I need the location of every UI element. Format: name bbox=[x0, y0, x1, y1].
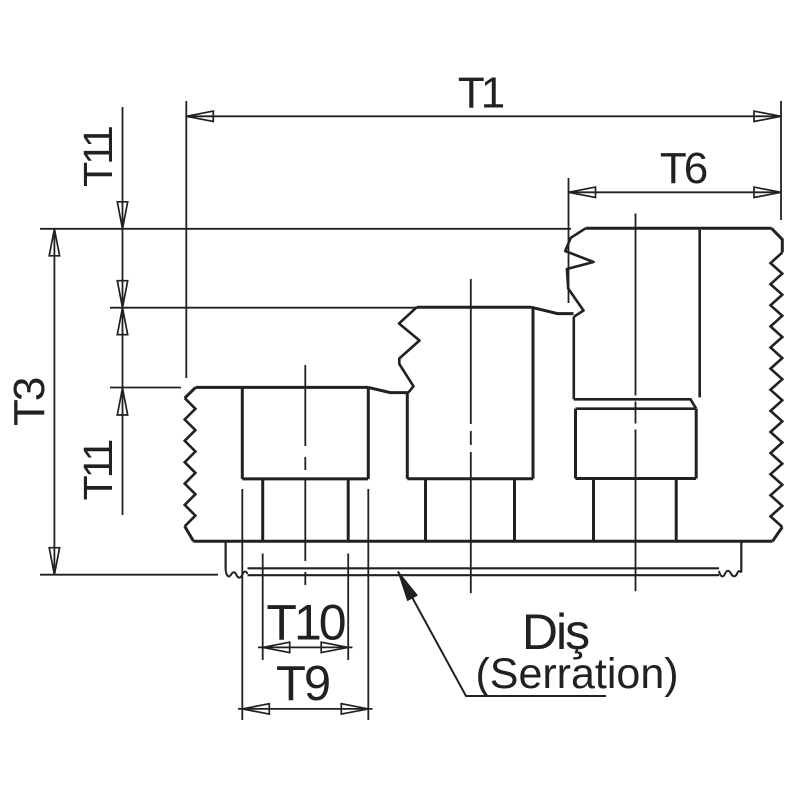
T9 left extension line bbox=[241, 489, 243, 720]
jaw body bottom-right corner chamfer bbox=[773, 527, 783, 541]
serration strip right end vertical bbox=[740, 541, 742, 572]
jaw body left edge serrated zigzag bbox=[185, 398, 196, 526]
serration strip upper line bbox=[248, 567, 720, 569]
serration strip left freehand squiggle bbox=[226, 570, 248, 578]
extension line of right section top bbox=[40, 228, 571, 230]
T1 right arrowhead bbox=[754, 111, 781, 121]
T11 middle arrowhead up bbox=[117, 308, 127, 335]
jaw body top-right corner chamfer bbox=[772, 228, 783, 252]
jaw body middle section top edge bbox=[417, 306, 532, 309]
T1 T6 shared right extension line bbox=[780, 101, 782, 220]
jaw body top-left corner chamfer bbox=[185, 387, 196, 398]
T9 dimension line bbox=[238, 708, 373, 710]
jaw body bottom edge bbox=[194, 540, 773, 543]
jaw body right edge serrated zigzag bbox=[771, 253, 783, 528]
T1 left arrowhead bbox=[186, 111, 213, 121]
T3 dimension line bbox=[53, 229, 55, 575]
right T-nut lower narrow block bbox=[594, 479, 677, 542]
jaw body left section top edge bbox=[196, 386, 369, 389]
left T-nut lower narrow block bbox=[263, 479, 349, 541]
T10 right extension line bbox=[347, 554, 349, 661]
T9 left arrowhead bbox=[242, 704, 269, 714]
svg-text:T3: T3 bbox=[5, 378, 54, 426]
centerline of middle T-nut bbox=[470, 279, 472, 593]
svg-text:T1: T1 bbox=[458, 69, 504, 118]
middle section freehand break line bbox=[399, 307, 420, 392]
T1 left extension line bbox=[185, 101, 187, 378]
right section slot right edge bbox=[698, 230, 701, 398]
T9 right extension line bbox=[367, 489, 369, 720]
jaw body bottom-left corner chamfer bbox=[185, 526, 194, 541]
T1 dimension line bbox=[186, 115, 781, 117]
T11 chain dimension vertical line bbox=[122, 107, 124, 515]
T3 top arrowhead bbox=[49, 229, 59, 256]
jaw body outline right section top edge bbox=[586, 227, 772, 230]
T11 lower arrowhead up bbox=[117, 388, 127, 415]
svg-text:T10: T10 bbox=[266, 595, 344, 651]
right section slot left edge bbox=[572, 317, 575, 400]
middle T-nut lower narrow block bbox=[426, 479, 515, 542]
T6 dimension line bbox=[569, 191, 782, 193]
serration leader line bbox=[398, 572, 606, 697]
serration strip lower line bbox=[248, 574, 720, 576]
svg-text:T11: T11 bbox=[75, 127, 121, 187]
extension line of left section top bbox=[110, 387, 181, 389]
right section freehand break line bbox=[565, 228, 593, 316]
T11 upper arrowhead down bbox=[117, 202, 127, 229]
right bolt head block bbox=[576, 409, 697, 479]
T10 left arrowhead bbox=[263, 642, 290, 652]
svg-text:T11: T11 bbox=[75, 441, 121, 501]
left-to-middle step slant edge bbox=[368, 387, 408, 392]
middle-to-right step slant edge bbox=[532, 307, 574, 313]
centerline of right bolt bbox=[635, 214, 637, 592]
svg-text:(Serration): (Serration) bbox=[475, 650, 678, 698]
T6 left arrowhead bbox=[569, 187, 596, 197]
left T-nut upper block bbox=[242, 387, 368, 479]
serration strip right freehand squiggle bbox=[719, 571, 741, 577]
middle T-nut upper block bbox=[407, 307, 533, 478]
svg-text:T6: T6 bbox=[660, 144, 707, 193]
serration leader filled arrowhead bbox=[398, 572, 417, 601]
T11 middle arrowhead down bbox=[117, 281, 127, 308]
right bolt head chamfered top face bbox=[574, 399, 696, 408]
T3 bottom arrowhead bbox=[49, 548, 59, 575]
T6 left extension line bbox=[568, 178, 570, 303]
serration strip left end vertical bbox=[225, 541, 227, 569]
T3 bottom extension line bbox=[40, 574, 218, 576]
T10 right arrowhead bbox=[321, 642, 348, 652]
centerline of left T-nut bbox=[304, 365, 306, 593]
T10 dimension line bbox=[258, 646, 353, 648]
extension line of middle section top bbox=[110, 307, 417, 309]
T10 left extension line bbox=[262, 554, 264, 661]
T6 right arrowhead bbox=[754, 187, 781, 197]
T9 right arrowhead bbox=[341, 704, 368, 714]
svg-text:T9: T9 bbox=[276, 657, 329, 711]
